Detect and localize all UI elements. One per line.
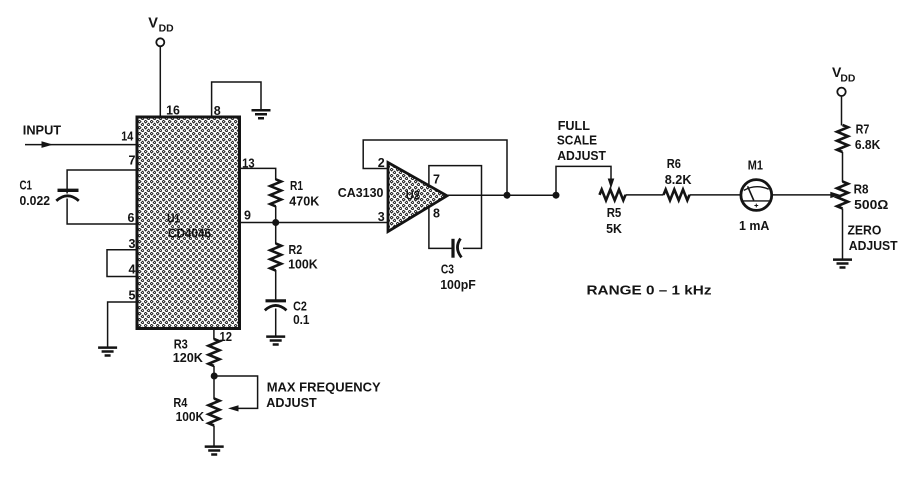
capacitor C3 [453,239,462,258]
label R4 value [173,395,204,424]
label RANGE 0 - 1 kHz [587,283,712,298]
wire pin 8 to ground [212,82,261,117]
full scale arrowhead [608,179,615,189]
wire pin 13 to R1 [240,168,276,180]
svg-text:7: 7 [433,172,440,186]
svg-text:CA3130: CA3130 [338,185,384,200]
wire R6 to M1 [690,194,742,196]
wire R3 to R4 [213,366,215,399]
wire R8 to ground [842,209,844,260]
wire op-amp output [447,194,556,196]
ground pin 5 [98,348,117,356]
svg-text:470K: 470K [289,194,319,209]
svg-text:ZERO: ZERO [848,223,882,238]
ground C2 [266,337,285,345]
max frequency arrowhead [228,405,239,411]
resistor R7 [837,125,848,152]
R8 wiper arrowhead [830,192,840,198]
potentiometer R5 [600,190,626,201]
svg-text:R5: R5 [607,205,622,220]
ground R4 [205,447,224,455]
svg-text:6.8K: 6.8K [855,137,881,152]
pin 7 [129,153,136,167]
svg-text:R7: R7 [856,121,870,136]
wire max frequency adjust bracket [214,376,257,408]
node pin 9 junction [272,219,279,226]
wire C2 to ground [275,309,277,337]
svg-text:8: 8 [433,207,440,221]
svg-text:CD4046: CD4046 [168,225,211,240]
svg-text:R1: R1 [290,178,303,193]
wire VDD to pin 16 [159,46,161,117]
svg-text:2: 2 [378,156,385,170]
resistor R4 [209,399,220,426]
pin 13 [242,157,255,171]
label C3 value [440,262,476,293]
label FULL SCALE ADJUST [557,118,606,163]
power VDD left terminal [156,38,164,46]
label C1 value [20,178,51,209]
label U2 [406,188,420,203]
wire R1 to R2 [275,206,277,244]
svg-text:7: 7 [129,153,136,167]
svg-text:5K: 5K [606,221,622,236]
pin 8 [214,104,221,118]
label R5 value [606,205,622,236]
pin 4 [129,263,136,277]
svg-text:3: 3 [129,237,136,251]
capacitor C1 [56,190,79,201]
input arrowhead [42,141,54,148]
label M1 [748,158,764,173]
svg-text:0.1: 0.1 [293,312,310,327]
svg-text:100pF: 100pF [440,277,476,292]
pin 8 op-amp [433,207,440,221]
svg-text:8.2K: 8.2K [665,172,692,187]
pin 6 [128,211,135,225]
svg-text:R6: R6 [667,156,681,171]
label ZERO ADJUST [848,223,898,254]
node R3 R4 junction [211,373,218,380]
label VDD left [148,16,174,35]
svg-text:100K: 100K [288,257,318,272]
resistor R2 [270,244,281,271]
svg-text:C3: C3 [441,262,454,277]
label R6 value [665,156,692,187]
label CA3130 [338,185,384,200]
pin 14 [121,129,133,143]
svg-text:U1: U1 [167,210,181,225]
svg-text:ADJUST: ADJUST [849,238,898,253]
wire full scale adjust bracket [556,166,611,195]
svg-text:R4: R4 [173,395,187,410]
resistor R3 [209,339,220,366]
label R2 value [288,242,318,272]
node op-amp output junction [504,192,511,199]
label C2 value [293,299,310,328]
svg-text:13: 13 [242,157,255,171]
svg-text:V: V [148,16,158,32]
svg-text:DD: DD [159,23,174,35]
svg-text:120K: 120K [173,350,204,365]
potentiometer R8 [837,182,848,209]
svg-text:SCALE: SCALE [557,132,597,147]
svg-text:C1: C1 [20,178,33,193]
ground R8 [833,260,852,268]
svg-text:14: 14 [121,129,133,143]
label R7 value [855,121,881,152]
label VDD right [832,64,856,85]
resistor R6 [664,190,690,201]
svg-text:ADJUST: ADJUST [266,395,316,410]
svg-text:INPUT: INPUT [23,122,61,137]
svg-text:FULL: FULL [558,118,590,133]
svg-text:4: 4 [129,263,136,277]
op-amp U2 [388,163,447,232]
wire R5 to R6 [626,194,664,196]
label 1 mA [739,218,770,233]
svg-text:500Ω: 500Ω [854,197,889,212]
capacitor C2 [265,301,287,311]
svg-text:9: 9 [244,209,251,223]
svg-text:6: 6 [128,211,135,225]
wire INPUT to pin 14 [25,144,137,146]
svg-text:5: 5 [129,288,136,302]
wire pin 5 to ground [108,302,137,347]
svg-text:ADJUST: ADJUST [557,148,606,163]
IC U1 CD4046 [137,117,240,329]
pin 3 [129,237,136,251]
label INPUT [23,122,61,137]
svg-text:DD: DD [840,73,855,85]
power VDD right terminal [837,88,845,96]
pin 12 [220,330,233,344]
label MAX FREQUENCY ADJUST [266,380,381,411]
pin 5 [129,288,136,302]
pin 16 [166,104,180,118]
pin 2 op-amp [378,156,385,170]
svg-text:R2: R2 [289,242,303,257]
svg-text:3: 3 [378,210,385,224]
wire pin 9 to op-amp input [240,222,389,224]
pin 3 op-amp [378,210,385,224]
node full scale junction [553,192,560,199]
pin 9 [244,209,251,223]
wire C1 to pin 6 [67,199,137,225]
svg-text:8: 8 [214,104,221,118]
svg-text:12: 12 [220,330,233,344]
svg-text:R8: R8 [854,182,869,197]
wire feedback pin 2 loop [363,140,507,195]
wire R2 to C2 [275,270,277,300]
pin 7 op-amp [433,172,440,186]
wire pin 3 to pin 4 loop [107,250,137,277]
meter M1 [741,180,772,211]
svg-text:16: 16 [166,104,180,118]
svg-text:RANGE 0 – 1 kHz: RANGE 0 – 1 kHz [587,283,712,298]
svg-text:1 mA: 1 mA [739,218,770,233]
svg-text:100K: 100K [176,409,205,424]
label R1 value [289,178,319,209]
svg-text:M1: M1 [748,158,764,173]
svg-text:0.022: 0.022 [20,193,51,208]
ground pin 8 [252,110,271,118]
resistor R1 [270,179,281,206]
wire M1 to R8 [772,194,832,196]
wire pin 7 to C1 [67,170,137,194]
wire R4 to ground [213,426,215,447]
wire pin 12 to R3 [213,329,215,340]
label R8 value [854,182,889,213]
wire R7 to R8 [842,152,844,182]
wire VDD to R7 [841,96,843,126]
svg-text:MAX FREQUENCY: MAX FREQUENCY [267,380,381,395]
label R3 value [173,336,204,365]
svg-text:U2: U2 [406,188,420,203]
rectangle pins 7 8 with C3 [429,166,482,249]
